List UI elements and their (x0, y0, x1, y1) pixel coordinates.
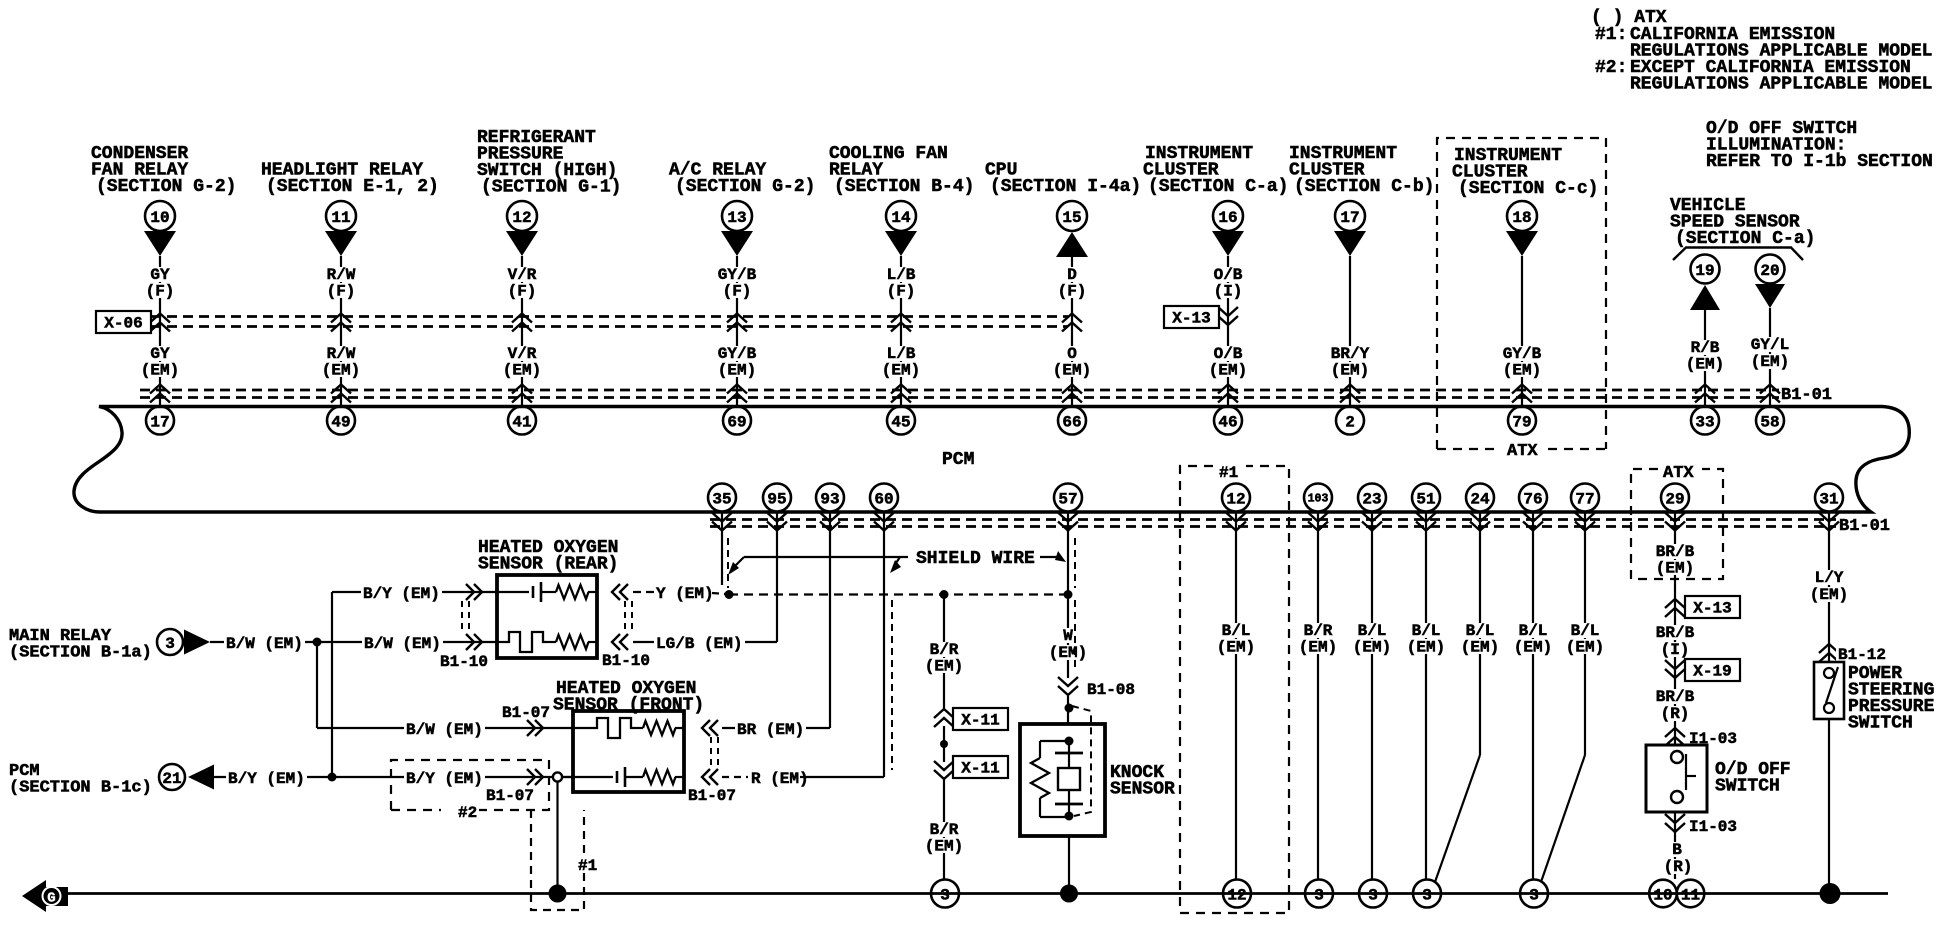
PCM pin circle 29 (1661, 484, 1689, 512)
svg-text:(SECTION C-b): (SECTION C-b) (1294, 177, 1434, 197)
shield junction dot at W wire (1064, 590, 1073, 599)
svg-text:(I): (I) (1214, 283, 1243, 301)
svg-text:X-11: X-11 (961, 760, 999, 778)
svg-text:L/B: L/B (887, 266, 916, 284)
svg-text:3: 3 (1314, 886, 1324, 904)
PCM pin circle 76 (1519, 484, 1547, 512)
connector X-06 junction at GY (150, 314, 170, 323)
svg-text:(I): (I) (1661, 641, 1690, 659)
PCM pin circle 35 (708, 484, 736, 512)
heated oxygen sensor front box (573, 711, 684, 792)
svg-text:46: 46 (1218, 413, 1237, 431)
svg-text:L/B: L/B (887, 345, 916, 363)
svg-text:11: 11 (331, 209, 350, 227)
connector X-06 junction at O (1062, 314, 1082, 323)
knock sensor box (1020, 724, 1105, 836)
svg-text:(F): (F) (887, 283, 916, 301)
svg-text:69: 69 (727, 413, 746, 431)
connector circle 16 (1213, 201, 1243, 231)
connector B1-01 junction pin 76 (1532, 512, 1534, 536)
connector B1-01 junction pin 41 (512, 385, 532, 394)
svg-text:20: 20 (1760, 262, 1779, 280)
connector circle 10 (145, 201, 175, 231)
connector circle 18 (1507, 201, 1537, 231)
svg-text:B1-10: B1-10 (602, 652, 650, 670)
arrow to PCM at pin 17 (1334, 231, 1366, 256)
PCM pin circle 23 (1358, 484, 1386, 512)
option box #2 except california (391, 760, 549, 810)
wire BR (EM) (722, 727, 830, 729)
connector X-13 label box upper (1164, 306, 1219, 328)
svg-text:(R): (R) (1664, 858, 1693, 876)
PCM pin circle 60 (870, 484, 898, 512)
wire to ground from connector (556, 782, 558, 894)
connector B1-07 junction front right signal (710, 769, 718, 785)
wire knock sensor to ground (1068, 836, 1070, 894)
svg-text:45: 45 (891, 413, 910, 431)
svg-text:B/L: B/L (1222, 622, 1251, 640)
svg-text:V/R: V/R (508, 266, 537, 284)
svg-text:95: 95 (767, 490, 786, 508)
bracket over vehicle speed sensor pins (1673, 248, 1803, 261)
connector B1-10 junction left heater (466, 634, 474, 650)
svg-text:#1: #1 (578, 857, 597, 875)
connector X-13 junction lower (1665, 599, 1685, 608)
pin 35 wire stub (721, 535, 723, 585)
svg-text:(EM): (EM) (1331, 362, 1369, 380)
PCM module outline (74, 407, 1909, 513)
PCM pin circle 24 (1466, 484, 1494, 512)
dashed shield around knock sensor (1072, 706, 1091, 816)
svg-text:18: 18 (1512, 209, 1531, 227)
svg-text:B/R: B/R (1304, 622, 1333, 640)
svg-text:GY/B: GY/B (1503, 345, 1542, 363)
option box ATX around instrument cluster C-c (1437, 138, 1606, 449)
svg-text:B/R: B/R (930, 641, 959, 659)
connector X-19 junction (1665, 669, 1685, 678)
connector B1-01 junction pin 45 (891, 385, 911, 394)
dashed shield alongside R wire (891, 600, 893, 770)
svg-text:V/R: V/R (508, 345, 537, 363)
svg-text:B/L: B/L (1466, 622, 1495, 640)
connector B1-07 junction front right heater (710, 720, 718, 736)
svg-text:X-13: X-13 (1693, 600, 1731, 618)
svg-text:#2:: #2: (1595, 58, 1627, 78)
connector B1-10 junction rear sensor signal (466, 584, 474, 600)
connector B1-01 junction pin 77 (1584, 512, 1586, 536)
svg-text:23: 23 (1362, 490, 1381, 508)
junction B/W (313, 638, 322, 647)
connector B1-01 junction pin 12 (1235, 512, 1237, 536)
svg-text:41: 41 (512, 413, 531, 431)
wire B/L (EM) pin column x1426 (1425, 535, 1427, 879)
PCM pin circle 77 (1571, 484, 1599, 512)
ground symbol G (22, 880, 68, 912)
svg-text:11: 11 (1681, 886, 1700, 904)
svg-text:35: 35 (712, 490, 731, 508)
svg-text:O: O (1067, 345, 1077, 363)
dashed shield right of front sensor (710, 737, 712, 768)
svg-text:(EM): (EM) (1353, 639, 1391, 657)
connector B1-01 junction pin 2 (1340, 385, 1360, 394)
connector circle 11 (326, 201, 356, 231)
svg-text:X-11: X-11 (961, 712, 999, 730)
wire L/Y (EM) pin 31 (1828, 535, 1830, 662)
wire B/W (EM) to front sensor heater (316, 642, 318, 728)
wire B/R (EM) lower (943, 780, 945, 879)
PCM pin circle 31 (1815, 484, 1843, 512)
svg-text:SENSOR: SENSOR (1110, 780, 1175, 800)
svg-text:3: 3 (165, 635, 175, 653)
svg-text:R (EM): R (EM) (751, 770, 809, 788)
shield junction dot knock sensor (1067, 696, 1069, 724)
connector B1-01 junction pin 69 (727, 385, 747, 394)
svg-text:O/B: O/B (1214, 345, 1243, 363)
PCM pin circle 49 (327, 407, 355, 435)
svg-text:(SECTION G-1): (SECTION G-1) (481, 178, 621, 198)
svg-text:31: 31 (1819, 490, 1838, 508)
O/D off switch box (1646, 745, 1707, 812)
connector B1-01 junction pin 35 (721, 512, 723, 536)
svg-text:19: 19 (1695, 262, 1714, 280)
svg-text:B1-01: B1-01 (1839, 517, 1890, 536)
svg-text:GY/L: GY/L (1751, 336, 1789, 354)
rear sensor heater element (497, 641, 505, 643)
svg-text:15: 15 (1062, 209, 1081, 227)
knock sensor internal junction top (1065, 737, 1074, 746)
shield wire callout (744, 556, 908, 558)
svg-text:SWITCH: SWITCH (1715, 777, 1780, 797)
svg-text:(SECTION G-2): (SECTION G-2) (96, 177, 236, 197)
svg-text:(F): (F) (327, 283, 356, 301)
PCM pin circle 93 (816, 484, 844, 512)
svg-text:3: 3 (940, 886, 950, 904)
harness bus B1-01 dashed pair bottom (710, 518, 1836, 521)
svg-text:(SECTION I-4a): (SECTION I-4a) (990, 177, 1141, 197)
svg-text:60: 60 (874, 490, 893, 508)
connector X-11 junction lower (934, 770, 954, 779)
PCM pin circle 66 (1058, 407, 1086, 435)
arrow from PCM at pin 19 (1690, 285, 1720, 310)
wire O (EM) column pin 66 (1071, 257, 1073, 407)
svg-text:(EM): (EM) (1656, 560, 1694, 578)
connector B1-01 junction pin 93 (829, 512, 831, 536)
connector B1-01 junction pin 33 (1695, 385, 1715, 394)
svg-text:66: 66 (1062, 413, 1081, 431)
svg-text:12: 12 (512, 209, 531, 227)
wire GY/L (EM) pin 58 (1769, 308, 1771, 407)
wire B/L (EM) pin column x1372 (1371, 535, 1373, 879)
shield wire dashed net (729, 593, 1068, 595)
svg-text:51: 51 (1416, 490, 1435, 508)
svg-text:GY: GY (150, 345, 170, 363)
connector circle 21 PCM (159, 764, 185, 790)
PCM pin circle 33 (1691, 407, 1719, 435)
ground pin circle 3 (931, 880, 959, 908)
svg-text:BR/B: BR/B (1656, 543, 1695, 561)
svg-text:(EM): (EM) (1209, 362, 1247, 380)
svg-text:REGULATIONS APPLICABLE MODEL: REGULATIONS APPLICABLE MODEL (1630, 75, 1932, 95)
svg-text:B1-08: B1-08 (1087, 681, 1135, 699)
svg-text:(F): (F) (723, 283, 752, 301)
junction B/Y (328, 773, 337, 782)
svg-text:103: 103 (1308, 493, 1329, 506)
wire Y (EM) shield (633, 591, 655, 593)
svg-text:(EM): (EM) (925, 658, 963, 676)
svg-text:(SECTION C-a): (SECTION C-a) (1675, 229, 1815, 249)
rear sensor cell element (497, 591, 529, 593)
arrow to PCM at pin 18 (1506, 231, 1538, 256)
svg-text:(SECTION B-1a): (SECTION B-1a) (9, 644, 152, 663)
svg-text:(EM): (EM) (503, 362, 541, 380)
wire R riser to pin 60 (883, 535, 885, 777)
wire B (R) (1670, 842, 1684, 857)
svg-text:BR/B: BR/B (1656, 624, 1695, 642)
arrow to PCM at pin 13 (721, 231, 753, 256)
connector I1-03 junction lower (1674, 812, 1676, 879)
wire R/W (EM) column pin 49 (340, 256, 342, 407)
knock sensor resistor leg (1040, 740, 1069, 742)
wire B/W (EM) main relay feed (210, 641, 497, 643)
svg-text:21: 21 (162, 770, 181, 788)
front sensor heater element (573, 727, 593, 729)
svg-text:PCM: PCM (942, 450, 974, 470)
front sensor cell element (562, 776, 573, 778)
svg-text:B/L: B/L (1412, 622, 1441, 640)
wire W (EM) knock sensor (1067, 595, 1069, 679)
connector X-11 junction upper (934, 709, 954, 718)
ground bus wire (63, 892, 1888, 895)
svg-text:3: 3 (1422, 886, 1432, 904)
svg-text:(EM): (EM) (1053, 362, 1091, 380)
wire GY/B (EM) column pin 79 (1521, 256, 1523, 407)
svg-text:(EM): (EM) (1751, 353, 1789, 371)
connector B1-01 junction pin 46 (1218, 385, 1238, 394)
harness bus B1-01 dashed pair top (140, 389, 1779, 392)
svg-text:B/L: B/L (1358, 622, 1387, 640)
svg-text:B/R: B/R (930, 821, 959, 839)
svg-text:B/Y (EM): B/Y (EM) (406, 770, 483, 788)
svg-text:R/B: R/B (1691, 339, 1720, 357)
connector B1-01 junction pin 31 (1828, 512, 1830, 536)
svg-text:(SECTION B-1c): (SECTION B-1c) (9, 779, 152, 798)
svg-text:(EM): (EM) (1049, 644, 1087, 662)
svg-text:(SECTION E-1, 2): (SECTION E-1, 2) (266, 177, 439, 197)
connector I1-03 junction upper (1665, 728, 1685, 737)
connector X-06 label box (96, 311, 151, 333)
svg-text:(EM): (EM) (882, 362, 920, 380)
svg-text:10: 10 (1653, 886, 1672, 904)
power steering switch contacts (1826, 667, 1838, 703)
ground pin circle 12 (1223, 880, 1251, 908)
harness bus X-06 dashed pair (151, 315, 1068, 318)
svg-text:BR/Y: BR/Y (1331, 345, 1370, 363)
connector X-06 junction at V/R (512, 314, 532, 323)
svg-text:R/W: R/W (327, 266, 356, 284)
svg-text:(R): (R) (1661, 705, 1690, 723)
connector B1-01 junction pin 29 (1674, 512, 1676, 536)
connector B1-12 junction (1819, 644, 1839, 653)
svg-text:3: 3 (1368, 886, 1378, 904)
connector circle 20 (1756, 255, 1785, 284)
connector B1-10 junction rear right heater (620, 634, 628, 650)
PCM pin circle 57 (1054, 484, 1082, 512)
connector circle 14 (886, 201, 916, 231)
svg-text:33: 33 (1695, 413, 1714, 431)
svg-text:(F): (F) (508, 283, 537, 301)
pin 57 wire to shield junction (1067, 535, 1069, 595)
svg-text:(SECTION G-2): (SECTION G-2) (675, 177, 815, 197)
ground junction dot (549, 885, 567, 903)
svg-text:BR (EM): BR (EM) (737, 721, 804, 739)
PCM pin circle 46 (1214, 407, 1242, 435)
power steering pressure switch box (1814, 662, 1844, 719)
connector B1-07 junction front signal (527, 769, 535, 785)
PCM pin circle 45 (887, 407, 915, 435)
wire B/Y (EM) PCM 21 feed (214, 776, 573, 778)
wire B/L (EM) pin column x1480 (1479, 535, 1481, 755)
svg-text:2: 2 (1345, 413, 1355, 431)
svg-text:58: 58 (1760, 413, 1779, 431)
ground pin circle 10 (1649, 880, 1677, 908)
svg-text:(SECTION C-a): (SECTION C-a) (1148, 177, 1288, 197)
junction dot B/R at shield net (940, 590, 949, 599)
svg-text:LG/B (EM): LG/B (EM) (656, 635, 742, 653)
svg-text:(EM): (EM) (1686, 356, 1724, 374)
ground junction dot pin 31 column (1820, 883, 1841, 904)
svg-text:G: G (47, 891, 55, 907)
wire LG/B (EM) (633, 641, 777, 643)
svg-text:#2: #2 (458, 804, 477, 822)
ground pin circle 3 (1305, 880, 1333, 908)
wire B/Y (EM) in option box (404, 771, 485, 786)
wire BR riser to pin 93 (829, 535, 831, 728)
heated oxygen sensor rear box (497, 575, 597, 658)
option box #1 california emission column (1180, 466, 1289, 913)
connector circle 17 (1335, 201, 1365, 231)
svg-text:13: 13 (727, 209, 746, 227)
PCM pin circle 12 (1222, 484, 1250, 512)
wire GY/B (EM) column pin 69 (736, 256, 738, 407)
svg-text:B1-07: B1-07 (486, 787, 534, 805)
svg-text:(EM): (EM) (1514, 639, 1552, 657)
svg-text:B/Y (EM): B/Y (EM) (228, 770, 305, 788)
junction dot X-11 (940, 740, 948, 748)
svg-text:(EM): (EM) (141, 362, 179, 380)
option box #1 lower (531, 810, 584, 910)
wire L/B (EM) column pin 45 (900, 256, 902, 407)
svg-text:GY/B: GY/B (718, 345, 757, 363)
arrow to PCM at pin 11 (325, 231, 357, 256)
arrow from PCM at pin 15 (1056, 232, 1088, 257)
svg-text:B/L: B/L (1519, 622, 1548, 640)
connector B1-01 junction pin 23 (1371, 512, 1373, 536)
svg-text:#1:: #1: (1595, 25, 1627, 45)
svg-text:76: 76 (1523, 490, 1542, 508)
wire B/Y (EM) riser to rear sensor (331, 592, 333, 777)
svg-text:77: 77 (1575, 490, 1594, 508)
svg-text:93: 93 (820, 490, 839, 508)
svg-text:(F): (F) (146, 283, 175, 301)
svg-text:B/W (EM): B/W (EM) (364, 635, 441, 653)
svg-text:(EM): (EM) (718, 362, 756, 380)
arrow to PCM pin 21 (188, 765, 214, 790)
connector circle 12 (507, 201, 537, 231)
svg-text:BR/B: BR/B (1656, 688, 1695, 706)
wire BR/B (EM) pin 29 (1674, 535, 1676, 745)
O/D off switch contacts (1685, 754, 1687, 790)
svg-text:L/Y: L/Y (1815, 569, 1844, 587)
connector B1-07 junction front heater (527, 720, 535, 736)
svg-text:#1: #1 (1219, 464, 1238, 482)
connector B1-01 junction pin 103 (1317, 512, 1319, 536)
svg-text:(EM): (EM) (1217, 639, 1255, 657)
connector circle 15 (1057, 201, 1087, 231)
svg-text:B/W (EM): B/W (EM) (226, 635, 303, 653)
svg-text:12: 12 (1226, 490, 1245, 508)
wire B/L (EM) pin column x1585 (1584, 535, 1586, 755)
svg-text:B1-07: B1-07 (688, 787, 736, 805)
connector B1-01 junction pin 57 (1067, 512, 1069, 536)
svg-text:GY: GY (150, 266, 170, 284)
svg-text:B: B (1672, 841, 1682, 859)
svg-text:(EM): (EM) (1503, 362, 1541, 380)
wire GY (EM) column pin 17 (159, 256, 161, 407)
svg-text:ATX: ATX (1507, 442, 1538, 461)
connector circle 19 (1691, 255, 1720, 284)
connector circle 3 main relay (157, 629, 183, 655)
svg-text:79: 79 (1512, 413, 1531, 431)
svg-text:SHIELD WIRE: SHIELD WIRE (916, 549, 1035, 569)
PCM pin circle 95 (763, 484, 791, 512)
PCM pin circle 103 (1304, 484, 1332, 512)
PCM pin circle 17 (146, 407, 174, 435)
svg-text:SENSOR (REAR): SENSOR (REAR) (478, 555, 618, 575)
PCM pin circle 79 (1508, 407, 1536, 435)
wire B/L (EM) pin column x1236 (1235, 535, 1237, 879)
svg-text:24: 24 (1470, 490, 1490, 508)
connector X-06 junction at GY/B (727, 314, 747, 323)
svg-text:X-13: X-13 (1172, 310, 1210, 328)
svg-text:10: 10 (150, 209, 169, 227)
svg-text:X-19: X-19 (1693, 663, 1731, 681)
svg-text:(SECTION B-4): (SECTION B-4) (834, 177, 974, 197)
connector X-13 junction at O/B (1218, 316, 1238, 325)
shield junction dot (725, 590, 734, 599)
svg-text:(EM): (EM) (1299, 639, 1337, 657)
net label B1-01 bottom (1837, 517, 1892, 533)
PCM pin circle 51 (1412, 484, 1440, 512)
arrow to PCM at pin 14 (885, 231, 917, 256)
svg-text:D: D (1067, 266, 1077, 284)
svg-text:(EM): (EM) (1407, 639, 1445, 657)
dashed shield left of rear sensor (461, 601, 463, 633)
ground pin circle 3 (1413, 880, 1441, 908)
connector B1-01 junction pin 79 (1512, 385, 1532, 394)
svg-text:17: 17 (1340, 209, 1359, 227)
ground junction dot knock sensor (1060, 885, 1078, 903)
PCM pin circle 41 (508, 407, 536, 435)
knock sensor internal junction bottom (1065, 812, 1074, 821)
svg-text:57: 57 (1058, 490, 1077, 508)
svg-text:49: 49 (331, 413, 350, 431)
svg-text:(SECTION C-c): (SECTION C-c) (1458, 179, 1598, 199)
connector B1-01 junction pin 17 (150, 385, 170, 394)
svg-text:(EM): (EM) (925, 838, 963, 856)
svg-text:14: 14 (891, 209, 911, 227)
svg-text:B1-10: B1-10 (440, 653, 488, 671)
svg-text:REFER TO I-1b SECTION: REFER TO I-1b SECTION (1706, 152, 1933, 172)
